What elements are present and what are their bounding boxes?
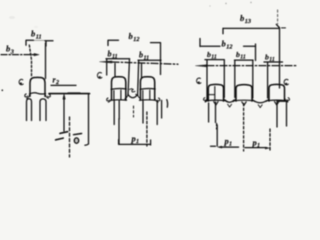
label b12 fig2 (129, 31, 140, 43)
pitch dimension left extension fig3 (216, 125, 218, 146)
tooth dome right fig2 (139, 77, 155, 101)
legs below tooth1 fig3 (209, 102, 217, 129)
extension ticks onto teeth fig2 (115, 64, 142, 78)
faint smudge top-left (9, 16, 38, 28)
dimension line b11 left fig2 (106, 58, 130, 60)
dimension line b12 fig2 (108, 40, 161, 45)
slot legs below left tooth fig2 (114, 101, 119, 125)
tooth 2 fig3 (233, 85, 255, 102)
right extension b12 fig3 (255, 44, 257, 61)
extension line right fig1 (45, 43, 47, 79)
centerline dash-dot fig3 (196, 65, 297, 67)
label b11 fig1 (31, 29, 42, 41)
pitch dimension line p1 fig2 (119, 140, 151, 145)
dimension line b12 fig3 (200, 39, 256, 47)
leader line r2 fig1 (51, 84, 76, 86)
label b11 second fig3 (236, 50, 246, 61)
dashed extension line fig1 bottom (69, 117, 71, 157)
pitch dimension right dashed extension fig3 (269, 129, 271, 152)
label b11 left fig2 (108, 50, 118, 61)
v mark under tooth2 fig3 (242, 102, 246, 105)
label b3 fig1 (6, 44, 14, 56)
rotated label delta fig1 (74, 134, 82, 144)
extension line dashed left fig1 (29, 45, 31, 76)
paper specks (209, 2, 251, 7)
slot floor arc between tooth1 tooth2 fig3 (225, 100, 234, 107)
v mark under tooth3 fig3 (275, 102, 279, 105)
label ra fig3 left (197, 78, 201, 84)
middle column fig2 (125, 59, 141, 99)
dimension line b11 third fig3 (264, 61, 283, 63)
pitch dimension p1 fig2 right dashed extension (134, 106, 147, 146)
label b12 fig3 (222, 39, 233, 51)
slot hairpin left fig1 (27, 99, 32, 121)
dimension line b13 fig3 (223, 10, 286, 34)
left extension line fig2 (106, 59, 108, 75)
fillet curls fig3 outer (204, 98, 290, 102)
tooth dome left fig2 (111, 77, 127, 101)
tooth dome fig1 (29, 77, 45, 96)
label p1 right fig3 (252, 138, 261, 150)
dimension line b11 fig1 (26, 40, 53, 46)
dimension line b11 right fig2 (138, 59, 161, 61)
right extension line b12 fig2 (160, 43, 162, 75)
label r2 fig1 (53, 76, 60, 87)
right extension line fig1 (85, 94, 89, 146)
fillet label a curl fig1 (19, 79, 23, 84)
label p1 left fig3 (224, 136, 233, 148)
slot legs below right tooth fig2 (143, 100, 168, 125)
workpiece surface line fig1 (49, 92, 90, 95)
fillet curls left fig1 (25, 94, 30, 99)
label b11 right fig2 (139, 51, 149, 62)
dimension line b11 first fig3 (205, 59, 224, 61)
extension verticals fig3 (207, 28, 280, 100)
label r3 fig3 right (284, 79, 288, 85)
v mark under tooth1 fig3 (214, 102, 218, 105)
label b11 first fig3 (207, 50, 217, 61)
height dimension line with up arrow fig1 (63, 94, 65, 131)
slot floor arc between tooth2 tooth3 fig3 (254, 101, 267, 108)
dimension leader b3 dash-dot fig1 (1, 53, 39, 55)
dimension line b11 second fig3 (235, 59, 254, 61)
tooth 1 fig3 (205, 84, 226, 101)
chip mark fig2 (130, 89, 137, 96)
centerline dash-dot fig2 (100, 61, 178, 64)
rotated label h1 fig1 (56, 132, 68, 140)
pitch dimension p1 fig2 left extension (118, 119, 120, 145)
slot hairpin right fig1 (40, 99, 46, 121)
speck fig1 (1, 89, 3, 91)
label p1 fig2 (131, 134, 140, 146)
dashed centerline below tooth2 fig3 (243, 104, 245, 152)
label ra fig2 (97, 72, 101, 78)
pitch dimension line p1 p1 fig3 (211, 146, 270, 149)
label b11 third fig3 (265, 53, 275, 64)
fillet curls fig2 (107, 98, 160, 102)
fillet curls right fig1 (45, 94, 50, 98)
ledge right of tooth3 fig3 (277, 101, 288, 127)
label b13 fig3 (240, 13, 251, 25)
tooth 3 fig3 (266, 84, 286, 101)
